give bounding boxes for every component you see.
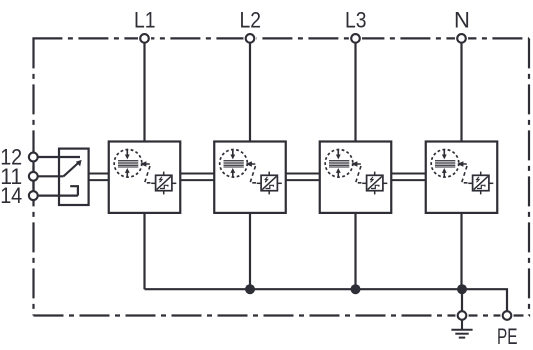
spark gap F3 bottom arrow (336, 168, 341, 177)
spark gap F2 top arrow (230, 150, 235, 160)
terminal (earthing) on bottom boundary (458, 311, 467, 320)
spark gap F3 electrode stack (329, 161, 349, 167)
wire terminal 12 to changeover contact (33, 156, 80, 158)
dashed trigger line module 1 (145, 164, 152, 183)
svg-text:L1: L1 (134, 8, 156, 33)
spark gap F2 electrode stack (224, 161, 244, 167)
wire L3 terminal down to SPD module 3 (354, 38, 356, 141)
trigger indication arrow module 3 (351, 161, 357, 166)
terminal 12 (29, 153, 38, 162)
trigger electronics unit A1 box with pins (151, 172, 176, 195)
wire ground terminal drop (461, 289, 463, 315)
trigger indication arrow module 4 (457, 161, 463, 166)
surge arrow glyph inside A1 (159, 177, 162, 183)
spark gap F1 bottom arrow (125, 168, 130, 177)
SPD module 2 (L2-PE protection path) box (214, 142, 286, 213)
spark gap F2 dashed circle (220, 150, 248, 178)
surge arrow glyph inside A2 (265, 177, 268, 183)
enclosure boundary, bottom edge (34, 314, 531, 316)
spark gap F4 dashed circle (431, 150, 459, 178)
dashed trigger line module 3 (356, 164, 363, 183)
spark gap F3 top arrow (336, 150, 341, 160)
spark gap F4 top arrow (442, 150, 447, 160)
trigger indication arrow module 1 (140, 161, 146, 166)
wire L2 terminal down to SPD module 2 (249, 38, 251, 141)
mechanical linkage (double line) segment 1 (89, 174, 109, 181)
enclosure boundary, left edge (32, 38, 34, 315)
wire PE collecting bus (145, 289, 508, 315)
spark gap F3 dashed circle (325, 150, 353, 178)
wire terminal 11 to changeover contact (33, 175, 63, 177)
spark gap F1 dashed circle (114, 150, 142, 178)
terminal L1 (140, 34, 149, 43)
changeover contact 11-12-14 (64, 160, 82, 196)
wire N terminal down to SPD module 4 (460, 38, 462, 141)
svg-text:14: 14 (0, 183, 22, 208)
dashed trigger line module 4 (462, 164, 469, 183)
spark gap F4 electrode stack (435, 161, 455, 167)
terminal halo masks (138, 32, 514, 322)
remote signalling switch box S1 (59, 149, 89, 205)
step waveform glyph inside A4 (477, 185, 485, 188)
SPD module 3 (L3-PE protection path) box (320, 142, 392, 213)
SPD module 4 (N-PE protection path) box (426, 142, 498, 213)
trigger electronics unit A3 box with pins (362, 172, 387, 195)
svg-text:N: N (454, 8, 470, 33)
wire SPD module 4 down to PE bus (460, 213, 462, 289)
terminal L3 (351, 34, 360, 43)
spark gap F2 bottom arrow (230, 168, 235, 177)
enclosure boundary (dash-dot frame), top edge (32, 37, 529, 39)
dashed trigger line module 2 (250, 164, 257, 183)
step waveform glyph inside A1 (160, 185, 168, 188)
terminal 11 (29, 172, 38, 181)
spark gap F1 electrode stack (118, 161, 138, 167)
terminal N (457, 34, 466, 43)
mechanical linkage (double line) segment 3 (286, 174, 320, 181)
terminal 14 (29, 191, 38, 200)
wire SPD module 2 down to PE bus (249, 213, 251, 289)
solid border segment joining terminals 12-11-14 (32, 151, 34, 202)
wire L1 terminal down to SPD module 1 (143, 38, 145, 141)
ground (earth symbol) (451, 320, 472, 338)
svg-text:PE: PE (497, 324, 518, 349)
SPD module 1 (L1-PE protection path) box (109, 142, 181, 213)
junction dot on PE bus 1 (245, 284, 255, 294)
terminal L2 (246, 34, 255, 43)
trigger indication arrow module 2 (246, 161, 252, 166)
enclosure boundary, right edge (528, 38, 530, 315)
trigger electronics unit A2 box with pins (257, 172, 282, 195)
spark gap F4 bottom arrow (442, 168, 447, 177)
trigger electronics unit A4 box with pins (468, 172, 493, 195)
svg-text:L2: L2 (240, 8, 262, 33)
terminal PE (503, 311, 512, 320)
svg-text:L3: L3 (345, 8, 367, 33)
surge arrow glyph inside A3 (370, 177, 373, 183)
junction dot on PE bus 3 (457, 284, 467, 294)
step waveform glyph inside A2 (266, 185, 274, 188)
wire terminal 14 to changeover contact (33, 195, 78, 197)
mechanical linkage (double line) segment 2 (180, 174, 214, 181)
mechanical linkage (double line) segment 4 (391, 174, 426, 181)
spark gap F1 top arrow (125, 150, 130, 160)
junction dot on PE bus 2 (351, 284, 361, 294)
wire SPD module 3 down to PE bus (354, 213, 356, 289)
wire SPD module 1 down to PE bus (143, 213, 145, 289)
step waveform glyph inside A3 (371, 185, 379, 188)
surge arrow glyph inside A4 (476, 177, 479, 183)
